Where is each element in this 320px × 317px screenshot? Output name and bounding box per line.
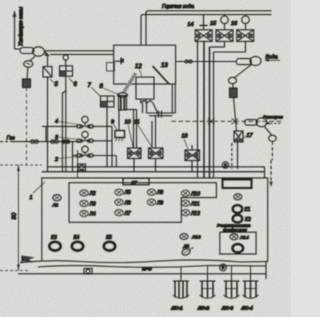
svg-text:12: 12: [135, 64, 142, 70]
water arrow: [264, 59, 280, 62]
svg-text:Разогрев: Разогрев: [263, 115, 284, 120]
exhaust arrow: [13, 10, 17, 49]
box 9: [115, 131, 125, 142]
damper: [45, 51, 50, 56]
lamp right: [234, 194, 242, 200]
sensor link: [30, 56, 35, 61]
svg-text:К4: К4: [74, 235, 80, 241]
svg-text:Л10: Л10: [190, 191, 200, 197]
svg-text:ЛС-3: ЛС-3: [221, 306, 233, 312]
svg-text:15: 15: [210, 21, 217, 27]
connector ЛС-3: [224, 274, 240, 298]
svg-text:Л9: Л9: [156, 200, 163, 206]
box 6: [60, 54, 73, 171]
svg-text:Л11: Л11: [190, 201, 200, 207]
connector ЛС-2: [200, 274, 216, 298]
flue duct: [141, 11, 149, 45]
manifold down: [73, 142, 79, 172]
svg-text:Уходящие газы: Уходящие газы: [19, 6, 25, 46]
svg-text:Л8: Л8: [156, 190, 163, 196]
bus lines: [42, 150, 265, 178]
svg-text:17: 17: [132, 180, 138, 186]
water cylinder: [236, 59, 251, 65]
valve 5: [43, 56, 52, 172]
svg-text:90: 90: [12, 212, 18, 219]
svg-text:Л6: Л6: [124, 200, 131, 206]
water sensor: [229, 65, 252, 132]
lamp Л13: [180, 234, 188, 240]
valve 14: [195, 15, 212, 42]
svg-text:18: 18: [182, 134, 189, 140]
svg-text:11: 11: [134, 120, 140, 126]
heating pump: [256, 118, 267, 127]
connector ЛС-4: [243, 274, 259, 298]
left tick: [107, 58, 125, 72]
box 7: [101, 96, 115, 167]
dashed drop: [26, 88, 28, 166]
bracket mark: [22, 256, 35, 263]
regulation box: [220, 232, 256, 254]
riser to burner: [112, 110, 137, 167]
bypass line: [42, 126, 78, 141]
svg-text:4: 4: [55, 119, 58, 125]
gas valve B: [149, 116, 164, 172]
sensor tm: [24, 61, 33, 68]
svg-text:13: 13: [161, 63, 168, 69]
svg-text:ЛС-1: ЛС-1: [171, 306, 183, 312]
svg-text:К5: К5: [106, 235, 112, 241]
junction circle: [222, 162, 228, 168]
pipe right of exchanger: [143, 84, 176, 118]
svg-text:БРЭ: БРЭ: [142, 267, 152, 273]
panel box: [18, 178, 268, 279]
exchanger bottom pipes: [141, 99, 159, 115]
lamps grid: [80, 189, 190, 217]
knob K2: [233, 215, 243, 223]
valve 16: [237, 15, 254, 42]
svg-text:Л3: Л3: [89, 202, 96, 208]
svg-text:мощности: мощности: [223, 227, 247, 232]
svg-text:17: 17: [247, 133, 254, 139]
chimney fan: [33, 47, 45, 56]
igniter tube: [123, 74, 136, 94]
electrode 13: [153, 66, 169, 84]
boiler box: [114, 45, 176, 84]
sensor box 4a: [27, 67, 28, 79]
svg-text:ЛС-4: ЛС-4: [241, 306, 253, 312]
small relay on bus: [78, 164, 86, 171]
svg-text:Газ: Газ: [7, 136, 16, 142]
svg-text:Л2: Л2: [89, 191, 96, 197]
nameplate: [123, 178, 149, 186]
gas valve A: [128, 148, 142, 172]
valve 4 assembly: [77, 116, 112, 129]
chimney pipe: [20, 48, 34, 54]
svg-text:14: 14: [188, 22, 194, 28]
svg-text:ЛС-2: ЛС-2: [197, 306, 209, 312]
gas line: [0, 140, 79, 144]
inner lamp box: [69, 183, 216, 223]
water pump: [250, 56, 261, 65]
svg-text:Л1: Л1: [52, 203, 59, 209]
svg-text:Л13: Л13: [191, 235, 201, 241]
svg-text:К1: К1: [245, 207, 251, 213]
valve 17: [232, 131, 243, 169]
dimension: [0, 165, 42, 271]
wire bundle from valves: [198, 41, 246, 178]
ZU mark: [84, 269, 92, 275]
bottom clamp: [220, 264, 227, 271]
connector ЛС-1: [173, 274, 189, 298]
knob K1: [233, 205, 243, 213]
connector stubs: [181, 266, 251, 274]
flue double line: [45, 50, 114, 52]
svg-text:16: 16: [231, 21, 238, 27]
lamp Л1: [53, 195, 61, 201]
box 19: [223, 180, 252, 189]
dashed control line: [172, 118, 283, 124]
valve 2 assembly: [77, 146, 117, 167]
valve 15: [216, 15, 233, 42]
heating arrow: [265, 122, 282, 125]
svg-text:2: 2: [54, 157, 58, 163]
gas valve 18: [185, 145, 200, 172]
svg-text:Л14: Л14: [239, 235, 249, 241]
svg-text:К3: К3: [51, 235, 57, 241]
connectors: [171, 274, 259, 312]
lamp labels: [89, 190, 201, 218]
svg-text:Л5: Л5: [124, 190, 131, 196]
heating cylinder: [245, 120, 258, 126]
heating sensor: [265, 127, 277, 188]
inner heat exchanger: [136, 77, 154, 99]
svg-text:Л7: Л7: [124, 211, 131, 217]
valve 3 assembly: [77, 131, 112, 143]
cold water line: [176, 61, 237, 63]
burner: [118, 93, 128, 110]
svg-text:Л4: Л4: [89, 212, 96, 218]
svg-text:Л12: Л12: [190, 211, 200, 217]
hot water pipe: [144, 11, 272, 15]
svg-text:1: 1: [30, 195, 33, 201]
svg-text:Горячая вода: Горячая вода: [162, 4, 194, 10]
